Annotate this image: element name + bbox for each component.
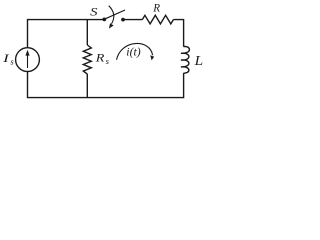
- resistor R: [142, 15, 173, 24]
- svg-text:L: L: [194, 54, 204, 69]
- svg-text:R: R: [152, 1, 160, 15]
- i(t) arrowhead: [150, 55, 154, 60]
- svg-text:R: R: [95, 51, 106, 65]
- inductor L: [181, 47, 190, 74]
- switch closing arc: [109, 6, 114, 24]
- current source I1 circle: [16, 48, 40, 72]
- wire R-to-corner + right vertical top: [173, 20, 183, 47]
- wire right-bottom vertical + bottom wire + left vertical bottom: [28, 72, 184, 98]
- wire middle top: [86, 20, 88, 45]
- svg-text:I: I: [2, 51, 10, 65]
- wire top-left horizontal + left vertical top: [28, 20, 105, 48]
- current source arrow: [25, 50, 29, 68]
- switch arrowhead: [109, 23, 114, 28]
- switch node left: [102, 18, 106, 22]
- svg-text:s: s: [10, 56, 14, 66]
- svg-text:i(t): i(t): [126, 45, 140, 59]
- current direction arc i(t): [117, 43, 155, 60]
- switch S: [102, 6, 125, 29]
- switch node right: [121, 18, 125, 22]
- switch blade: [105, 10, 125, 19]
- svg-text:S: S: [90, 5, 97, 19]
- wire switch-to-R: [123, 19, 142, 21]
- resistor Rs: [83, 45, 91, 74]
- svg-text:s: s: [106, 56, 110, 66]
- wire middle bottom: [86, 74, 88, 98]
